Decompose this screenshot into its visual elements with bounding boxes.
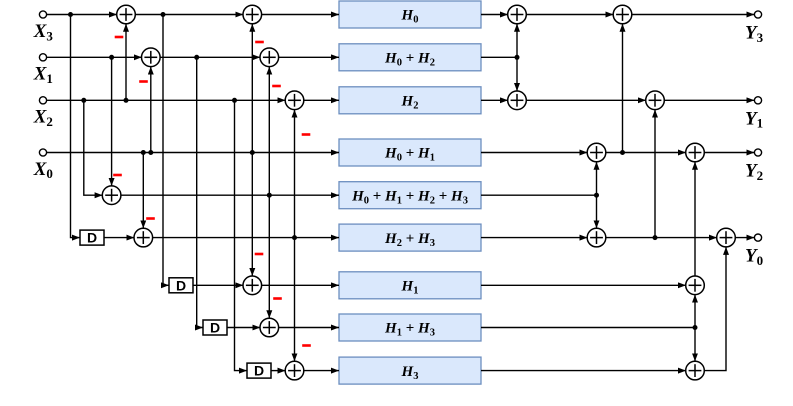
wire H2 box to adder A12 [481, 99, 508, 101]
svg-text:D: D [87, 230, 97, 246]
wire H1+H3 node down to adder A20 [694, 328, 696, 362]
filter box H0+H1+H2+H3 [339, 182, 481, 209]
delay D1 [80, 230, 104, 246]
input terminal X2 [39, 97, 46, 104]
svg-text:H2​ + H3​: H2​ + H3​ [384, 231, 435, 249]
node A15 output branch [620, 150, 625, 155]
wire adder A2 to adder A8 [160, 56, 260, 58]
wire X0 branch down to adder A4 [142, 153, 144, 229]
minus at adder A9 input [302, 133, 311, 136]
minus at adder A2 input [139, 80, 148, 83]
wire H0+H2 node up to adder A11 [516, 24, 518, 58]
wire adder A17 to adder A18 [606, 237, 718, 239]
output terminal Y3 [754, 11, 761, 18]
wire delay D3 to adder A6 [227, 327, 260, 329]
wire adder A16 to output Y2 [704, 152, 754, 154]
minus at adder A3 input [113, 174, 122, 177]
filter box H0 [339, 1, 481, 28]
adder A18 [717, 228, 736, 247]
adder A6 [260, 318, 279, 337]
svg-text:D: D [254, 363, 264, 379]
wire adder A20 to adder A18 [704, 247, 726, 371]
node H1+H3 output [693, 325, 698, 330]
minus at adder A8 input [272, 85, 281, 88]
wire adder A19 up to adder A16 [694, 162, 696, 276]
wire delay D2 to adder A5 [193, 284, 243, 286]
adder A8 [260, 48, 279, 67]
filter box H1 [339, 272, 481, 299]
delay D2 [169, 277, 193, 293]
minus at adder A5 input [255, 253, 264, 256]
filter box H2+H3 [339, 224, 481, 251]
adder A11 [508, 5, 527, 24]
wire adder A7 to H0 box [261, 14, 339, 16]
node A4 output branch [292, 235, 297, 240]
svg-text:H0​ + H2​: H0​ + H2​ [384, 51, 435, 69]
wire X3 branch to delay D1 [71, 15, 81, 238]
wire adder A11 to adder A13 [526, 14, 614, 16]
wire X0 branch down to adder A5 [251, 153, 253, 277]
adder A19 [686, 276, 705, 295]
adder A7 [243, 5, 262, 24]
filter box H0+H2 [339, 44, 481, 71]
adder A4 [134, 228, 153, 247]
adder A12 [508, 91, 527, 110]
filter box H0+H1 [339, 139, 481, 166]
filter box H2 [339, 87, 481, 114]
adder A17 [587, 228, 606, 247]
wire H0+H2 box to node [481, 56, 517, 58]
wire X2 to adder A9 [47, 99, 286, 101]
wire X1 to adder A2 [47, 56, 142, 58]
filter box H3 [339, 357, 481, 384]
adder A3 [102, 186, 121, 205]
svg-text:D: D [210, 320, 220, 336]
wire A15 branch up to adder A13 [622, 24, 624, 153]
wire H0+H1+H2+H3 node down to adder A17 [596, 195, 598, 228]
wire A3 output branch up to adder A8 [268, 67, 270, 196]
wire adder A3 to H0+H1+H2+H3 box [121, 194, 339, 196]
wire adder A18 to output Y0 [735, 237, 754, 239]
wire A3 output branch down to adder A6 [268, 195, 270, 318]
wire H0+H2 node down to adder A12 [516, 57, 518, 91]
node X3 branch [68, 12, 73, 17]
filter box H1+H3 [339, 314, 481, 341]
delay D4 [247, 363, 271, 379]
node A17 output branch [653, 235, 658, 240]
node X0 branch a [141, 150, 146, 155]
wire X2 branch to adder A3 [84, 100, 103, 195]
wire adder A4 to H2+H3 box [152, 237, 339, 239]
node X2 branch a [81, 98, 86, 103]
adder A14 [646, 91, 665, 110]
minus at adder A6 input [273, 297, 282, 300]
node X2 branch b [124, 98, 129, 103]
svg-text:H0​ + H1​: H0​ + H1​ [384, 146, 435, 164]
node A1 output branch [161, 12, 166, 17]
svg-text:H0​ + H1​ + H2​ + H3​: H0​ + H1​ + H2​ + H3​ [351, 188, 468, 206]
wire delay D4 to adder A10 [271, 370, 286, 372]
minus at adder A7 input [255, 41, 264, 44]
node H0+H1+H2+H3 output [594, 193, 599, 198]
adder A15 [587, 143, 606, 162]
input terminal X1 [39, 54, 46, 61]
delay D3 [203, 320, 227, 336]
adder A16 [686, 143, 705, 162]
wire A17 branch up to adder A14 [654, 110, 656, 238]
wire H2+H3 box to adder A17 [481, 237, 588, 239]
output terminal Y1 [754, 97, 761, 104]
wire adder A13 to output Y3 [632, 14, 755, 16]
wire H0+H1 box to adder A15 [481, 152, 588, 154]
minus at adder A4 input [146, 217, 155, 220]
wire adder A12 to adder A14 [526, 99, 646, 101]
wire H0 box to adder A11 [481, 14, 508, 16]
minus at adder A1 input [115, 36, 124, 39]
wire adder A8 to H0+H2 box [278, 56, 339, 58]
node X0 branch c [250, 150, 255, 155]
node A2 output branch [194, 55, 199, 60]
wire adder A6 to H1+H3 box [278, 327, 339, 329]
node X0 branch b [148, 150, 153, 155]
wire X1 branch down to adder A3 [111, 57, 113, 186]
wire X0 branch up to adder A2 [150, 67, 152, 153]
wire A4 output branch up to adder A9 [294, 110, 296, 238]
adder A1 [117, 5, 136, 24]
node H0+H2 output [515, 55, 520, 60]
wire adder A1 to adder A7 [135, 14, 243, 16]
wire X0 to H0+H1 box [47, 152, 339, 154]
adder A13 [613, 5, 632, 24]
svg-text:D: D [176, 277, 186, 293]
adder A9 [285, 91, 304, 110]
input terminal X3 [39, 11, 46, 18]
input terminal X0 [39, 149, 46, 156]
wire adder A10 to H3 box [304, 370, 340, 372]
wire H1 box to adder A19 [481, 284, 686, 286]
wire adder A14 to output Y1 [664, 99, 754, 101]
wire adder A5 to H1 box [261, 284, 339, 286]
wire X3 to adder A1 [47, 14, 117, 16]
wire X0 branch up to adder A7 [251, 24, 253, 153]
wire adder A15 to adder A16 [606, 152, 687, 154]
wire X2 branch to delay D4 [235, 100, 248, 370]
adder A10 [285, 361, 304, 380]
wire A1 output branch to delay D2 [163, 15, 169, 286]
node A3 output branch [267, 193, 272, 198]
adder A20 [686, 361, 705, 380]
wire H1+H3 box to node [481, 327, 695, 329]
wire A2 output branch to delay D3 [197, 57, 203, 327]
adder A2 [142, 48, 161, 67]
wire H0+H1+H2+H3 node up to adder A15 [596, 162, 598, 195]
svg-text:H1​ + H3​: H1​ + H3​ [384, 321, 435, 339]
node X1 branch [109, 55, 114, 60]
wire delay D1 to adder A4 [104, 237, 134, 239]
output terminal Y2 [754, 149, 761, 156]
wire H1+H3 node up to adder A19 [694, 295, 696, 328]
node X2 branch c [232, 98, 237, 103]
wire H0+H1+H2+H3 box to node [481, 194, 597, 196]
wire adder A9 to H2 box [304, 99, 340, 101]
wire A4 output branch down to adder A10 [294, 238, 296, 362]
wire X2 branch up to adder A1 [125, 24, 127, 101]
output terminal Y0 [754, 234, 761, 241]
adder A5 [243, 276, 262, 295]
minus at adder A10 input [302, 344, 311, 347]
wire H3 box to adder A20 [481, 370, 686, 372]
